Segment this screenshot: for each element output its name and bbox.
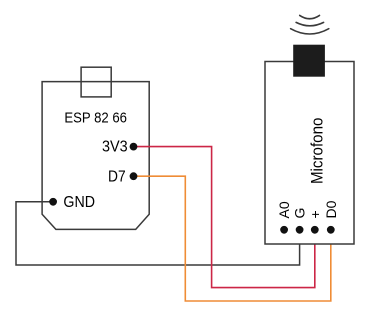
sound wave arc large <box>291 29 329 34</box>
sound wave arc middle <box>296 22 324 25</box>
pin dot D0 <box>327 226 335 234</box>
wire orange D7 to D0 <box>134 176 331 301</box>
svg-text:Microfono: Microfono <box>307 118 326 185</box>
ESP8266 module body <box>42 82 149 230</box>
pin dot A0 <box>280 226 288 234</box>
ESP8266 antenna tab <box>81 67 111 97</box>
sound wave arc small <box>300 15 320 18</box>
wire black GND to G <box>16 202 300 265</box>
wire red 3V3 to + <box>134 147 315 288</box>
svg-text:A0: A0 <box>276 201 292 218</box>
svg-text:+: + <box>307 210 323 218</box>
microphone black capsule <box>293 45 325 77</box>
pin dot + <box>311 226 319 234</box>
pin dot G <box>296 226 304 234</box>
svg-text:3V3: 3V3 <box>102 139 128 156</box>
pin D7 dot <box>130 172 138 180</box>
pin GND dot <box>49 198 57 206</box>
svg-text:GND: GND <box>63 194 95 211</box>
svg-text:ESP 82 66: ESP 82 66 <box>64 110 127 127</box>
svg-text:D0: D0 <box>323 200 339 218</box>
svg-text:G: G <box>292 208 308 219</box>
svg-text:D7: D7 <box>108 168 126 185</box>
microphone module body <box>265 62 354 245</box>
pin 3V3 dot <box>130 143 138 151</box>
